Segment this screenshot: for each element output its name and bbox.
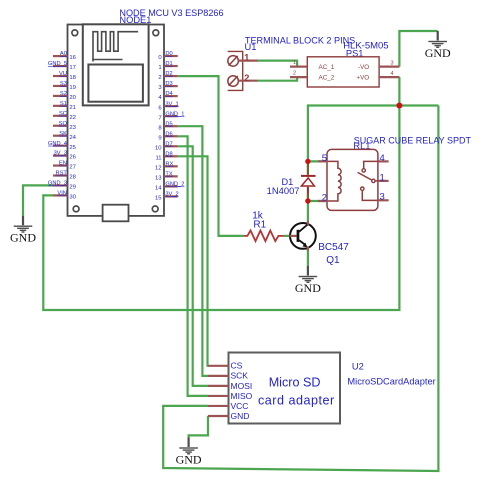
svg-text:25: 25 xyxy=(69,145,76,151)
PS1 pin 3 -VO xyxy=(358,60,399,71)
svg-text:10: 10 xyxy=(155,145,162,151)
ground top right (PS1 -VO) xyxy=(425,31,451,60)
svg-text:15: 15 xyxy=(155,196,162,202)
svg-text:AC_1: AC_1 xyxy=(319,64,335,71)
NodeMCU pin 28 RST xyxy=(53,171,77,181)
svg-text:24: 24 xyxy=(69,135,76,141)
svg-text:3V_1: 3V_1 xyxy=(165,101,178,107)
svg-text:2: 2 xyxy=(158,75,161,81)
svg-text:CS: CS xyxy=(231,361,243,371)
wire node to relay pin 2 xyxy=(308,200,328,202)
SD adapter U2 body xyxy=(229,353,341,424)
svg-text:D4: D4 xyxy=(165,91,172,97)
svg-text:2: 2 xyxy=(293,71,296,77)
svg-text:MISO: MISO xyxy=(231,391,253,401)
svg-text:1N4007: 1N4007 xyxy=(267,185,300,196)
ground SD adapter xyxy=(176,438,202,467)
wire D6 to SD MISO xyxy=(178,136,208,396)
svg-text:GND: GND xyxy=(176,452,202,466)
svg-text:D3: D3 xyxy=(165,81,172,87)
svg-text:BC547: BC547 xyxy=(318,242,349,253)
wire D5 to SD SCK xyxy=(178,126,208,376)
wire node to relay pin 5 xyxy=(308,160,328,162)
svg-text:AC_2: AC_2 xyxy=(319,75,335,82)
NodeMCU pin 16 A0 xyxy=(53,51,77,61)
NodeMCU pin 26 3V_3 xyxy=(53,151,77,161)
NodeMCU pin 30 VIN xyxy=(53,191,77,201)
NodeMCU pin 23 SO xyxy=(53,121,77,131)
svg-text:SC: SC xyxy=(59,111,67,117)
svg-text:29: 29 xyxy=(69,185,76,191)
svg-text:9: 9 xyxy=(158,135,161,141)
NodeMCU pin 13 TX xyxy=(155,171,178,181)
NodeMCU pin 11 D8 xyxy=(155,151,177,161)
svg-text:3: 3 xyxy=(380,191,385,202)
wire 5V rail down to relay coil/diode xyxy=(307,104,309,161)
node junction relay pin5/D1 xyxy=(305,159,310,164)
svg-text:18: 18 xyxy=(69,75,76,81)
wire D8 to SD CS xyxy=(178,156,208,365)
svg-text:card adapter: card adapter xyxy=(258,393,335,407)
relay coil xyxy=(328,161,342,201)
svg-text:17: 17 xyxy=(69,65,76,71)
svg-text:11: 11 xyxy=(155,155,161,161)
wire PS1 +VO to VIN (node 5V) xyxy=(43,77,399,310)
NodeMCU pin 15 3V_2 xyxy=(155,192,179,202)
svg-text:D8: D8 xyxy=(165,151,172,157)
wire terminal1 to PS1 AC_1 xyxy=(258,61,298,67)
svg-text:D2: D2 xyxy=(165,71,172,77)
NodeMCU pin 22 SC xyxy=(53,111,76,121)
svg-text:GND_1: GND_1 xyxy=(165,111,184,117)
node junction relay pin2/D1 xyxy=(305,198,310,203)
svg-text:26: 26 xyxy=(69,155,76,161)
relay pin 3 xyxy=(378,199,389,201)
svg-text:SCK: SCK xyxy=(231,371,249,381)
svg-text:SO: SO xyxy=(59,121,68,127)
NodeMCU pin 8 D5 xyxy=(158,121,177,131)
svg-text:SK: SK xyxy=(59,131,67,137)
NodeMCU pin 2 D2 xyxy=(158,71,177,81)
relay switch contacts xyxy=(358,161,378,200)
svg-text:+VO: +VO xyxy=(356,75,369,82)
svg-text:1: 1 xyxy=(158,65,161,71)
NodeMCU pin 12 RX xyxy=(155,161,178,171)
svg-text:TX: TX xyxy=(165,171,172,177)
SD adapter pin SCK xyxy=(208,371,248,381)
SD adapter pin VCC xyxy=(208,401,248,411)
svg-text:27: 27 xyxy=(69,165,76,171)
svg-text:12: 12 xyxy=(155,165,162,171)
svg-text:MOSI: MOSI xyxy=(231,381,253,391)
NodeMCU mounting holes xyxy=(72,30,78,36)
NodeMCU metal shield xyxy=(88,65,142,102)
svg-text:RX: RX xyxy=(165,161,173,167)
svg-text:2: 2 xyxy=(244,73,249,84)
svg-text:2: 2 xyxy=(322,193,327,204)
svg-text:23: 23 xyxy=(69,125,76,131)
svg-text:1: 1 xyxy=(244,53,250,64)
wire D7 to SD MOSI xyxy=(178,146,208,386)
wire diode bottom node to Q1 collector xyxy=(307,201,309,222)
svg-text:EN: EN xyxy=(59,161,67,167)
svg-text:Micro SD: Micro SD xyxy=(269,376,321,390)
NodeMCU pin 29 GND_3 xyxy=(48,181,76,191)
PS1 pin 4 +VO xyxy=(356,71,399,82)
svg-text:TERMINAL BLOCK 2 PINS: TERMINAL BLOCK 2 PINS xyxy=(245,36,355,46)
wire D2 to R1 xyxy=(178,76,244,236)
svg-text:GND_3: GND_3 xyxy=(48,181,67,187)
SD adapter pin GND xyxy=(208,411,249,421)
svg-text:MicroSDCardAdapter: MicroSDCardAdapter xyxy=(347,377,435,387)
NodeMCU pin 3 D3 xyxy=(158,81,177,91)
wire PS1 -VO to GND xyxy=(399,31,437,67)
svg-text:RST: RST xyxy=(56,171,68,177)
NodeMCU pin 18 VU xyxy=(53,71,77,81)
wire SD GND to GND xyxy=(189,416,208,438)
PS1 body xyxy=(307,57,379,87)
NodeMCU pin 14 GND_2 xyxy=(155,181,184,191)
svg-text:20: 20 xyxy=(69,95,76,101)
node junction 5V rail xyxy=(396,103,402,109)
svg-text:A0: A0 xyxy=(60,51,67,57)
svg-text:Q1: Q1 xyxy=(326,255,340,266)
NodeMCU pin 27 EN xyxy=(53,161,76,171)
svg-text:28: 28 xyxy=(69,175,76,181)
svg-text:VIN: VIN xyxy=(57,191,66,197)
resistor R1 xyxy=(244,231,284,242)
svg-text:D5: D5 xyxy=(165,121,172,127)
NodeMCU pin 20 S2 xyxy=(53,91,77,101)
svg-text:GND: GND xyxy=(295,281,321,295)
NodeMCU pin 25 GND_4 xyxy=(48,141,77,151)
svg-text:7: 7 xyxy=(158,115,161,121)
NodeMCU U-NODE1 body xyxy=(68,25,165,216)
svg-text:3V_3: 3V_3 xyxy=(54,151,67,157)
svg-text:R1: R1 xyxy=(253,219,266,230)
ground left (NodeMCU GND_3) xyxy=(10,216,36,245)
relay pin 5 xyxy=(318,160,328,162)
terminal U1 pin 2 screw xyxy=(228,73,258,86)
transistor Q1 BC547 xyxy=(290,221,316,250)
svg-text:16: 16 xyxy=(69,55,76,61)
svg-text:5: 5 xyxy=(322,153,327,164)
svg-text:D0: D0 xyxy=(165,51,172,57)
relay pin 2 xyxy=(318,200,328,202)
relay pin 4 xyxy=(378,160,389,162)
svg-text:19: 19 xyxy=(69,85,76,91)
svg-text:GND_5: GND_5 xyxy=(48,61,67,67)
svg-text:1: 1 xyxy=(380,173,385,184)
NodeMCU pin 10 D7 xyxy=(155,141,178,151)
NodeMCU ESP module outline xyxy=(83,24,149,105)
SD adapter pin CS xyxy=(208,361,243,371)
svg-text:S3: S3 xyxy=(60,81,67,87)
svg-text:D6: D6 xyxy=(165,131,172,137)
wire Q1 emitter to GND xyxy=(307,250,309,266)
svg-text:GND_2: GND_2 xyxy=(165,181,184,187)
svg-text:-VO: -VO xyxy=(358,64,369,71)
NodeMCU pin 4 D4 xyxy=(158,91,177,101)
NodeMCU pin 7 GND_1 xyxy=(158,111,184,121)
NodeMCU pin 0 D0 xyxy=(158,51,177,61)
PS1 pin 2 AC_2 xyxy=(290,71,335,82)
svg-text:14: 14 xyxy=(155,185,162,191)
svg-text:21: 21 xyxy=(69,105,76,111)
NodeMCU pin 6 3V_1 xyxy=(158,101,178,111)
svg-text:D7: D7 xyxy=(165,141,172,147)
relay pin 1 xyxy=(378,180,389,182)
wire 5V to SD VCC (right loop) xyxy=(163,106,438,472)
svg-text:4: 4 xyxy=(380,153,385,164)
svg-text:GND: GND xyxy=(231,411,250,421)
svg-text:U2: U2 xyxy=(352,362,364,372)
ground Q1 emitter xyxy=(295,266,321,295)
diode D1 1N4007 xyxy=(301,163,316,199)
NodeMCU pin 24 SK xyxy=(53,131,77,141)
NodeMCU pin 21 S1 xyxy=(53,101,76,111)
svg-text:3: 3 xyxy=(391,60,394,66)
svg-text:GND_4: GND_4 xyxy=(48,141,67,147)
NodeMCU pin 17 GND_5 xyxy=(48,61,76,71)
SD adapter pin MOSI xyxy=(208,381,252,391)
wire 5V rail horizontal xyxy=(308,104,439,106)
svg-text:GND: GND xyxy=(425,46,451,60)
svg-text:SUGAR CUBE RELAY SPDT: SUGAR CUBE RELAY SPDT xyxy=(354,135,472,145)
wire R1 to Q1 base xyxy=(284,235,290,237)
wire GND_3 to GND xyxy=(23,185,53,215)
terminal block bracket xyxy=(228,51,243,90)
svg-text:GND: GND xyxy=(10,231,36,245)
svg-text:1: 1 xyxy=(293,60,296,66)
svg-text:VCC: VCC xyxy=(231,401,249,411)
NodeMCU PCB antenna xyxy=(93,32,138,62)
svg-text:13: 13 xyxy=(155,175,162,181)
svg-text:22: 22 xyxy=(69,115,76,121)
svg-text:U1: U1 xyxy=(245,42,257,52)
NodeMCU USB tab xyxy=(103,205,129,222)
SD adapter pin MISO xyxy=(208,391,253,401)
NodeMCU pin 9 D6 xyxy=(158,131,177,141)
NodeMCU pin 19 S3 xyxy=(53,81,76,91)
wire terminal2 to PS1 AC_2 xyxy=(258,77,298,81)
PS1 pin 1 AC_1 xyxy=(290,60,335,71)
svg-text:S1: S1 xyxy=(60,101,67,107)
svg-text:3V_2: 3V_2 xyxy=(165,192,178,198)
svg-text:D1: D1 xyxy=(165,61,172,67)
terminal U1 pin 1 screw xyxy=(228,53,258,67)
svg-text:30: 30 xyxy=(69,195,76,201)
relay RL1 body xyxy=(327,149,378,210)
svg-text:4: 4 xyxy=(391,71,394,77)
svg-text:VU: VU xyxy=(59,71,67,77)
NodeMCU pin 1 D1 xyxy=(158,61,177,71)
svg-text:S2: S2 xyxy=(60,91,67,97)
